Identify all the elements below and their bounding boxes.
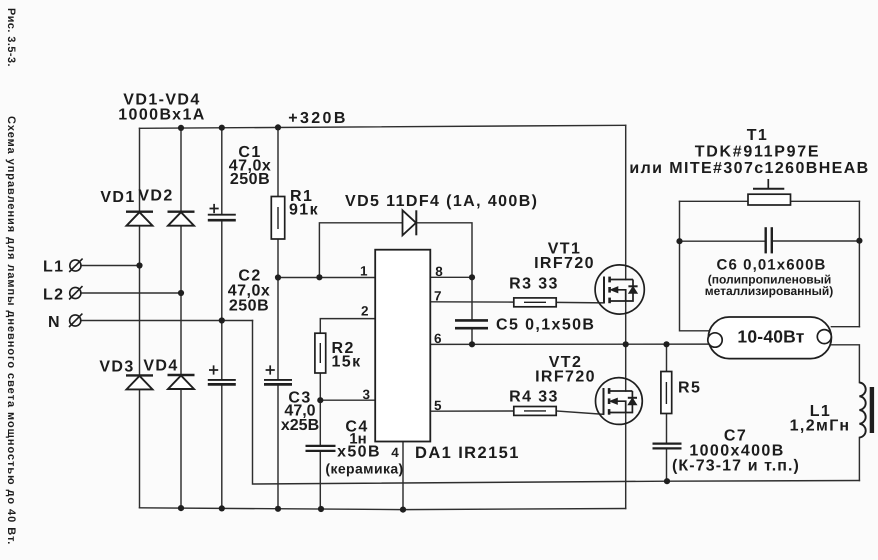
node L1 input junction [136,262,142,268]
svg-text:Схема управления для лампы дне: Схема управления для лампы дневного свет… [5,116,17,545]
wire pin4 [402,442,404,510]
svg-text:х25В: х25В [281,417,319,434]
wire VT1 source to VS [625,301,627,344]
svg-text:VD3: VD3 [99,359,134,376]
svg-text:250В: 250В [230,171,270,188]
node VCC VD5 junction [316,274,322,280]
wire R1/C3 branch vertical [277,127,279,508]
svg-text:250В: 250В [229,298,269,315]
node lamp return C7 [664,478,670,484]
svg-text:VD5 11DF4 (1А, 400В): VD5 11DF4 (1А, 400В) [345,193,538,210]
node VS half-bridge junction [623,341,629,347]
capacitor C4 [306,446,336,451]
wire bottom bus [140,508,626,510]
wire top +320V bus [140,125,626,128]
svg-text:(керамика): (керамика) [325,461,403,477]
svg-text:или MITE#307с1260ВНЕАВ: или MITE#307с1260ВНЕАВ [629,160,869,177]
node VCC R1 junction [275,274,281,280]
wire tank right vertical [858,201,860,326]
svg-text:L1: L1 [43,259,64,276]
svg-text:IRF720: IRF720 [535,369,596,386]
node bottom bus pin4 [400,507,406,513]
svg-text:L2: L2 [43,287,64,304]
wire left bridge branch VD1/VD3 vertical [139,128,141,507]
svg-text:N: N [48,314,61,331]
resistor R5 [661,372,672,414]
terminal L2 [69,286,82,299]
node bottom bus C2 [219,505,225,511]
wire C5 branch [471,277,473,344]
svg-text:Рис. 3.5-3.: Рис. 3.5-3. [5,8,17,67]
wire lamp right top stub [831,326,859,328]
wire input N [81,320,253,322]
svg-text:TDK#911P97E: TDK#911P97E [695,144,820,161]
svg-text:3: 3 [363,387,371,402]
wire T1 top right [791,200,860,202]
lamp EL1 10-40W [708,317,832,359]
wire pin3 [320,373,375,509]
svg-text:VD2: VD2 [138,188,173,205]
node bottom bus C4 [318,506,324,512]
terminal L1 [69,259,82,272]
wire VD5 bootstrap loop [319,223,472,277]
node N midpoint junction [219,317,225,323]
node bottom bus VD4 [178,505,184,511]
svg-text:R4 33: R4 33 [509,389,559,406]
diode VD5 [403,210,417,235]
svg-text:10-40Вт: 10-40Вт [737,327,804,347]
capacitor C7 [653,444,682,449]
terminal N [69,314,82,327]
wire half-bridge vertical (VT1 drain) [625,125,627,279]
diode VD1 [126,212,153,226]
wire lamp right bottom stub to L1 [831,345,859,481]
svg-text:(К-73-17 и т.п.): (К-73-17 и т.п.) [672,458,800,475]
capacitor C3 [264,365,292,384]
node C6 left junction [676,238,682,244]
svg-text:91к: 91к [289,202,319,219]
svg-text:7: 7 [434,289,442,304]
svg-text:1,2мГн: 1,2мГн [790,418,851,435]
resistor R3 inner lead [524,301,546,303]
svg-text:R5: R5 [678,380,701,397]
svg-text:R3 33: R3 33 [509,276,559,293]
transformer T1 [748,179,791,205]
node top bus junction R1 [275,124,281,130]
svg-text:2: 2 [361,304,369,319]
svg-text:IRF720: IRF720 [534,255,595,272]
node bottom bus C3 [275,506,281,512]
diode VD2 [168,212,195,226]
resistor R5 inner lead [665,382,667,404]
svg-text:VD1: VD1 [100,189,135,206]
node C6 right junction [856,238,862,244]
svg-text:VD4: VD4 [143,358,178,375]
svg-text:1: 1 [360,264,368,279]
capacitor C6 [766,227,772,253]
svg-text:15к: 15к [332,354,362,371]
node top bus junction VD2 [178,125,184,131]
svg-text:5: 5 [434,398,442,413]
capacitor C1 [208,204,236,220]
wire input L2 [81,292,181,294]
resistor R1 [271,197,284,240]
capacitor C2 [208,365,236,384]
resistor R2 [315,333,326,373]
wire R5/C7 branch [666,344,668,481]
wire second bridge branch VD2/VD4 vertical [180,128,182,508]
wire T1 top left [680,200,749,202]
inductor L1 [859,383,872,438]
wire input L1 [81,265,140,267]
diode VD4 [168,375,195,389]
node pin3 R2 junction [317,397,323,403]
svg-text:T1: T1 [747,127,768,144]
node VS C5 junction [469,341,475,347]
svg-text:+320В: +320В [288,110,348,127]
diode VD3 [126,375,153,389]
svg-text:DA1 IR2151: DA1 IR2151 [415,444,520,462]
svg-text:1000Вх1А: 1000Вх1А [118,107,206,124]
svg-text:8: 8 [435,264,443,279]
resistor R4 inner lead [524,410,546,412]
node VS R5 junction [663,341,669,347]
node L2 input junction [178,290,184,296]
wire VT2 source to bottom bus [625,413,627,509]
wire C1/C2 branch vertical [221,128,223,508]
svg-text:металлизированный): металлизированный) [705,284,834,298]
wire pin2 [320,319,375,334]
node VB junction [469,274,475,280]
wire C6 row [680,240,860,242]
wire neutral to lamp return [253,321,860,485]
wire pin1 VCC [278,277,375,279]
resistor R4 [514,407,556,416]
wire VT2 drain [625,344,627,391]
wire pin6 VS to lamp [430,343,710,345]
svg-text:4: 4 [391,445,399,460]
svg-text:х50В: х50В [337,444,381,461]
svg-text:C5 0,1х50В: C5 0,1х50В [496,317,595,334]
resistor R2 inner lead [319,343,321,363]
capacitor C5 [455,320,488,328]
resistor R3 [514,298,556,307]
wire pin5 to gate VT2 [430,411,603,414]
transistor Q2 (VT2 MOSFET) [596,378,643,425]
wire pin7 to gate VT1 [430,302,604,303]
resistor R1 inner lead [277,207,279,229]
svg-text:6: 6 [434,331,442,346]
svg-text:C6 0,01х600В: C6 0,01х600В [717,257,827,274]
transistor Q1 (VT1 MOSFET) [595,265,644,314]
wire pin8 [430,276,472,278]
node top bus junction C1 [219,125,225,131]
wire T1 left vertical to lamp [680,201,710,330]
op-amp U1 (driver IC DA1 IR2151 body) [375,250,430,442]
